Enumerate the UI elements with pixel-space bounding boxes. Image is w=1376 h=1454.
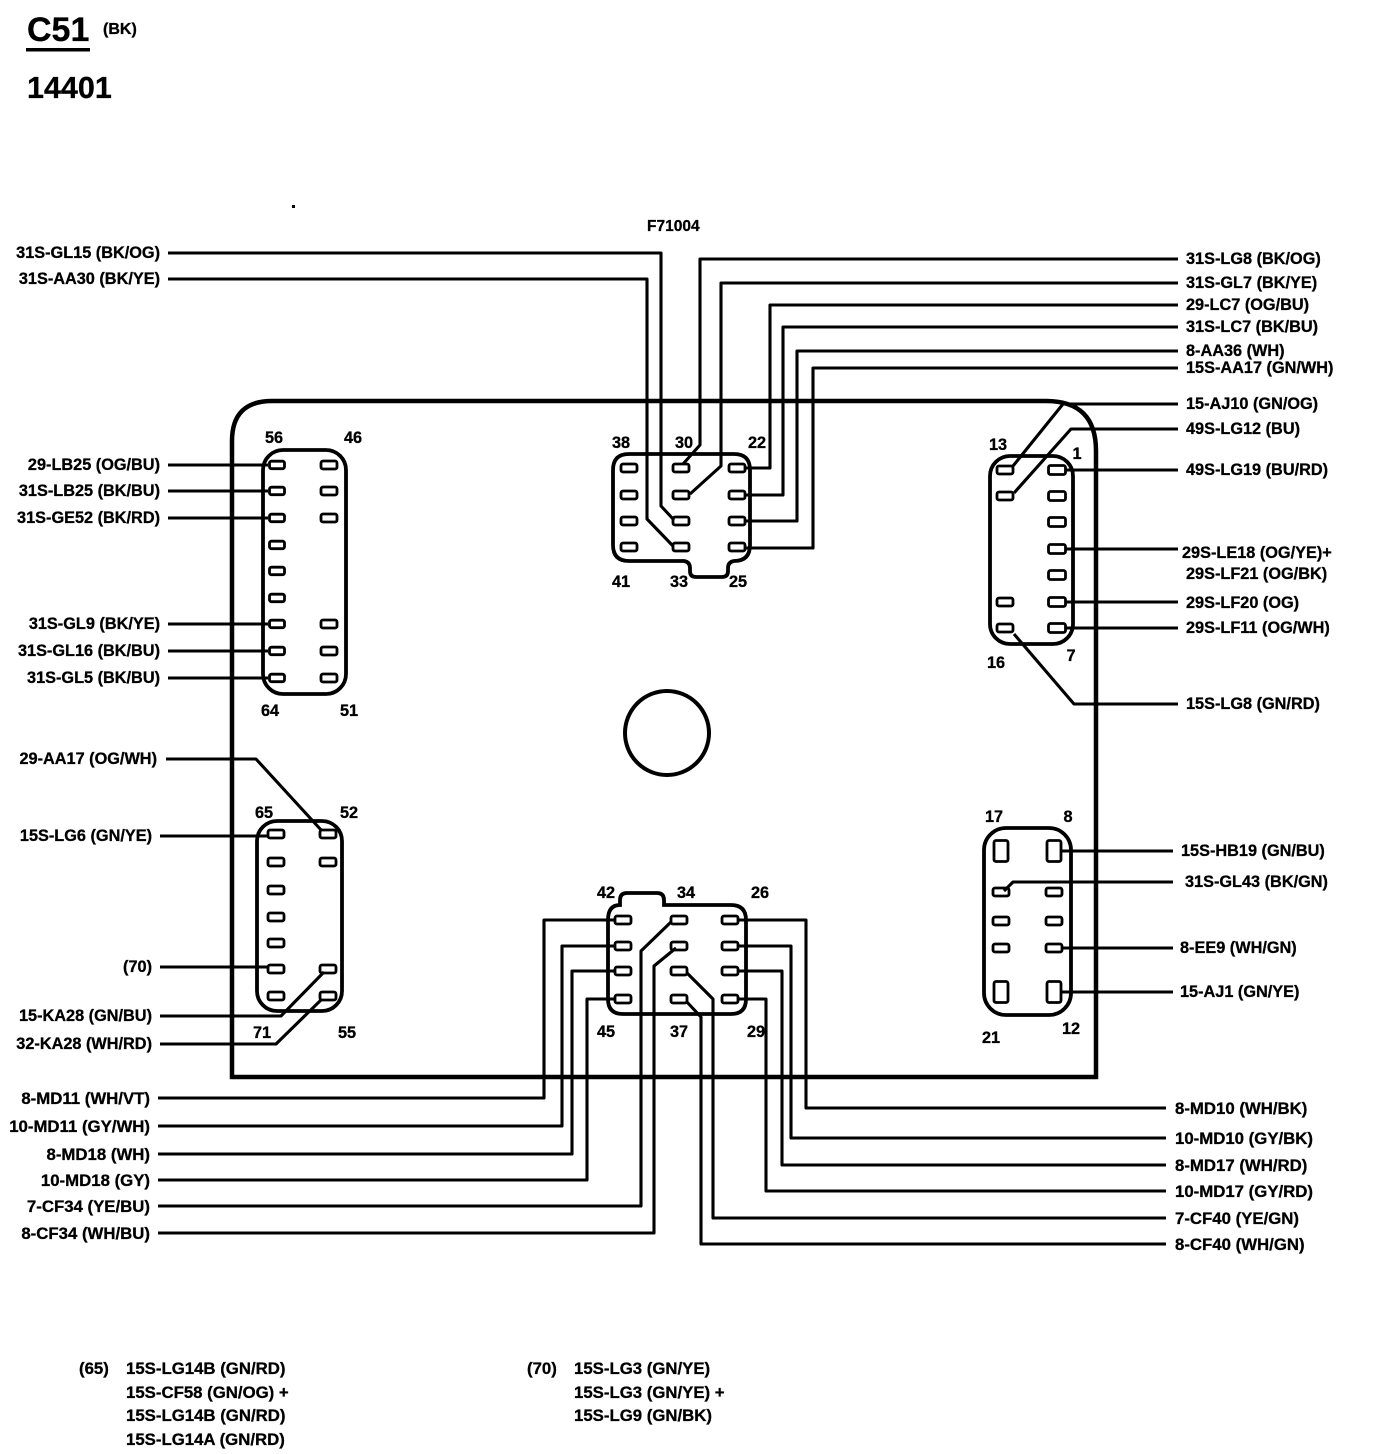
wire 7-CF40 (YE/GN) [687, 973, 1166, 1218]
wire 31S-GL15 (BK/OG) [168, 253, 674, 520]
block D left pin row7 [268, 992, 284, 1000]
block D right pin row6 [320, 965, 336, 973]
wire 10-MD11 (GY/WH) [158, 946, 615, 1126]
wire 32-KA28 (WH/RD) [160, 999, 322, 1044]
svg-text:29-LC7 (OG/BU): 29-LC7 (OG/BU) [1186, 296, 1309, 314]
block E col1 pin row3 [615, 967, 631, 975]
wire 49S-LG12 (BU) [1014, 429, 1178, 493]
block C outline (pins 1-13/7-16) [990, 456, 1073, 644]
block F pin 8 (tall) [1047, 841, 1061, 862]
svg-text:15S-HB19 (GN/BU): 15S-HB19 (GN/BU) [1181, 842, 1325, 860]
svg-text:15S-LG3 (GN/YE): 15S-LG3 (GN/YE) [574, 1359, 710, 1378]
block C left pin row7 [997, 624, 1013, 632]
block D right pin row2 [320, 858, 336, 866]
block B col3 pin row2 [729, 491, 745, 499]
block C right pin row2 [1049, 492, 1066, 501]
wire 8-EE9 (WH/GN) [1061, 946, 1173, 949]
svg-text:15S-LG6 (GN/YE): 15S-LG6 (GN/YE) [20, 827, 152, 845]
svg-text:10-MD18 (GY): 10-MD18 (GY) [41, 1171, 150, 1190]
block A right pin row7 [321, 620, 337, 628]
block F right pin row3 [1046, 917, 1062, 925]
svg-text:12: 12 [1062, 1020, 1080, 1038]
block B col2 pin row3 [673, 517, 689, 525]
wire 31S-AA30 (BK/YE) [168, 279, 673, 546]
svg-text:10-MD10 (GY/BK): 10-MD10 (GY/BK) [1175, 1129, 1313, 1148]
block B col2 pin row1 [673, 464, 689, 472]
svg-text:10-MD17 (GY/RD): 10-MD17 (GY/RD) [1175, 1182, 1313, 1201]
wire 10-MD10 (GY/BK) [738, 946, 1166, 1138]
svg-text:31S-GL7 (BK/YE): 31S-GL7 (BK/YE) [1186, 274, 1317, 292]
wire 31S-LC7 (BK/BU) [746, 327, 1178, 495]
svg-text:38: 38 [612, 434, 630, 452]
wire 10-MD17 (GY/RD) [738, 999, 1166, 1191]
block A left pin row1 [270, 461, 285, 469]
svg-text:52: 52 [340, 804, 358, 822]
block A left pin row5 [270, 567, 285, 575]
block C right pin row7 [1049, 624, 1066, 633]
block E col3 pin row3 [722, 967, 738, 975]
svg-text:15-KA28 (GN/BU): 15-KA28 (GN/BU) [19, 1007, 152, 1025]
block F pin 12 (tall) [1047, 982, 1061, 1003]
svg-text:30: 30 [675, 434, 693, 452]
svg-text:31S-GL15 (BK/OG): 31S-GL15 (BK/OG) [16, 244, 160, 262]
svg-text:33: 33 [670, 573, 688, 591]
svg-text:15S-LG3 (GN/YE) +: 15S-LG3 (GN/YE) + [574, 1383, 725, 1402]
block F pin 21 (tall) [994, 982, 1008, 1003]
svg-text:37: 37 [670, 1023, 688, 1041]
wire 8-MD18 (WH) [158, 971, 615, 1154]
wire (70) [160, 965, 267, 968]
svg-text:8-AA36 (WH): 8-AA36 (WH) [1186, 342, 1285, 360]
block D left pin row6 [268, 965, 284, 973]
block B col2 pin row2 [673, 491, 689, 499]
svg-text:15S-AA17 (GN/WH): 15S-AA17 (GN/WH) [1186, 359, 1333, 377]
block B col3 pin row3 [729, 517, 745, 525]
svg-text:8-EE9 (WH/GN): 8-EE9 (WH/GN) [1180, 939, 1297, 957]
svg-text:7: 7 [1066, 647, 1075, 665]
svg-text:29-LB25 (OG/BU): 29-LB25 (OG/BU) [28, 456, 160, 474]
wire 15S-LG6 (GN/YE) [160, 834, 267, 837]
block E col3 pin row2 [722, 942, 738, 950]
wire 31S-GL9 (BK/YE) [168, 622, 268, 625]
svg-text:22: 22 [748, 434, 766, 452]
block C right pin row3 [1049, 518, 1066, 527]
block A left pin row7 [270, 620, 285, 628]
svg-text:56: 56 [265, 429, 283, 447]
svg-text:C51: C51 [27, 11, 89, 49]
block B col1 pin row1 [621, 464, 637, 472]
wire 15S-HB19 (GN/BU) [1061, 849, 1173, 852]
svg-text:29S-LF11 (OG/WH): 29S-LF11 (OG/WH) [1186, 619, 1330, 637]
svg-text:(70): (70) [527, 1359, 557, 1378]
svg-text:21: 21 [982, 1029, 1000, 1047]
svg-text:46: 46 [344, 429, 362, 447]
wire 8-CF40 (WH/GN) [686, 1001, 1166, 1244]
wire 29S-LF11 (OG/WH) [1066, 626, 1178, 629]
block C right pin row5 [1049, 571, 1066, 580]
svg-text:64: 64 [261, 702, 279, 720]
wire 31S-LB25 (BK/BU) [168, 489, 268, 492]
wire 31S-GL16 (BK/BU) [168, 649, 268, 652]
svg-text:49S-LG19 (BU/RD): 49S-LG19 (BU/RD) [1186, 461, 1328, 479]
block A left pin row6 [270, 594, 285, 602]
block E col2 pin row3 [671, 967, 687, 975]
title C51 underline [26, 48, 90, 52]
wire 15S-AA17 (GN/WH) [746, 368, 1178, 548]
block F left pin row4 [993, 944, 1009, 952]
block B col1 pin row2 [621, 491, 637, 499]
block F right pin row4 [1046, 944, 1062, 952]
block D left pin row1 [268, 830, 284, 838]
block C left pin row6 [997, 598, 1013, 606]
block E col3 pin row4 [722, 995, 738, 1003]
svg-text:31S-LC7 (BK/BU): 31S-LC7 (BK/BU) [1186, 318, 1318, 336]
svg-text:15S-LG14B (GN/RD): 15S-LG14B (GN/RD) [126, 1406, 285, 1425]
block A left pin row8 [270, 647, 285, 655]
svg-text:31S-GL43 (BK/GN): 31S-GL43 (BK/GN) [1185, 873, 1328, 891]
wire 31S-GL7 (BK/YE) [690, 283, 1178, 494]
svg-text:14401: 14401 [27, 71, 112, 105]
svg-text:7-CF34 (YE/BU): 7-CF34 (YE/BU) [27, 1197, 150, 1216]
wire 15-AJ1 (GN/YE) [1061, 990, 1173, 993]
svg-text:15-AJ10 (GN/OG): 15-AJ10 (GN/OG) [1186, 395, 1318, 413]
svg-text:8-CF34 (WH/BU): 8-CF34 (WH/BU) [21, 1224, 150, 1243]
block D left pin row2 [268, 858, 284, 866]
connector body outline [232, 401, 1096, 1077]
block B col3 pin row4 [729, 543, 745, 551]
block E col1 pin row4 [615, 995, 631, 1003]
wire 8-MD11 (WH/VT) [158, 920, 615, 1098]
block E col1 pin row2 [615, 942, 631, 950]
block C right pin row1 [1049, 466, 1066, 475]
svg-text:29-AA17 (OG/WH): 29-AA17 (OG/WH) [19, 750, 157, 768]
svg-text:8-CF40 (WH/GN): 8-CF40 (WH/GN) [1175, 1235, 1305, 1254]
svg-text:26: 26 [751, 884, 769, 902]
svg-text:15-AJ1 (GN/YE): 15-AJ1 (GN/YE) [1180, 983, 1299, 1001]
wire 8-MD17 (WH/RD) [738, 971, 1166, 1165]
svg-text:65: 65 [255, 804, 273, 822]
block A left pin row3 [270, 514, 285, 522]
wire 8-MD10 (WH/BK) [738, 920, 1166, 1108]
svg-text:15S-LG14B (GN/RD): 15S-LG14B (GN/RD) [126, 1359, 285, 1378]
svg-text:13: 13 [989, 436, 1007, 454]
wire 15-AJ10 (GN/OG) [1013, 404, 1178, 466]
block A left pin row2 [270, 487, 285, 495]
svg-text:45: 45 [597, 1023, 615, 1041]
block D right pin row7 [320, 992, 336, 1000]
wire 8-CF34 (WH/BU) [158, 948, 676, 1233]
stray dot [292, 205, 295, 208]
wire 31S-GL43 (BK/GN) [1004, 882, 1173, 891]
svg-text:(65): (65) [79, 1359, 109, 1378]
block A outline (pins 46-56/51-64) [263, 450, 346, 694]
svg-text:55: 55 [338, 1024, 356, 1042]
block F pin 17 (tall) [994, 841, 1008, 862]
svg-text:17: 17 [985, 808, 1003, 826]
svg-text:8-MD11 (WH/VT): 8-MD11 (WH/VT) [21, 1089, 150, 1108]
svg-text:31S-GL5 (BK/BU): 31S-GL5 (BK/BU) [27, 669, 160, 687]
wire 29S-LF20 (OG) [1066, 600, 1178, 603]
svg-text:49S-LG12 (BU): 49S-LG12 (BU) [1186, 420, 1300, 438]
svg-text:15S-LG14A (GN/RD): 15S-LG14A (GN/RD) [126, 1430, 285, 1449]
svg-text:15S-LG9 (GN/BK): 15S-LG9 (GN/BK) [574, 1406, 712, 1425]
svg-text:41: 41 [612, 573, 630, 591]
wire 15-KA28 (GN/BU) [160, 972, 324, 1016]
svg-text:31S-LG8 (BK/OG): 31S-LG8 (BK/OG) [1186, 250, 1321, 268]
block A right pin row3 [321, 514, 337, 522]
block D left pin row5 [268, 939, 284, 947]
block B col2 pin row4 [673, 543, 689, 551]
block E col2 pin row2 [671, 942, 687, 950]
wire 29-LB25 (OG/BU) [168, 463, 268, 466]
wire 31S-LG8 (BK/OG) [683, 259, 1178, 464]
block F left pin row3 [993, 917, 1009, 925]
block B col3 pin row1 [729, 464, 745, 472]
svg-text:15S-LG8 (GN/RD): 15S-LG8 (GN/RD) [1186, 695, 1320, 713]
svg-text:15S-CF58 (GN/OG) +: 15S-CF58 (GN/OG) + [126, 1383, 289, 1402]
wire 29-AA17 (OG/WH) [166, 759, 322, 831]
wire 29-LC7 (OG/BU) [746, 305, 1178, 468]
svg-text:10-MD11 (GY/WH): 10-MD11 (GY/WH) [9, 1117, 150, 1136]
block F right pin row2 [1046, 888, 1062, 896]
wire 15S-LG8 (GN/RD) [1014, 634, 1178, 704]
block F outline (pins 8-17/12-21) [984, 828, 1071, 1015]
wire 31S-GE52 (BK/RD) [168, 516, 268, 519]
block E col1 pin row1 [615, 916, 631, 924]
svg-text:8-MD17 (WH/RD): 8-MD17 (WH/RD) [1175, 1156, 1307, 1175]
block F left pin row2 [993, 888, 1009, 896]
block A right pin row1 [321, 461, 337, 469]
block D left pin row4 [268, 913, 284, 921]
svg-text:32-KA28 (WH/RD): 32-KA28 (WH/RD) [16, 1035, 152, 1053]
svg-text:51: 51 [340, 702, 358, 720]
block C left pin row1 [997, 466, 1013, 474]
svg-text:8: 8 [1063, 808, 1072, 826]
svg-text:71: 71 [253, 1024, 271, 1042]
svg-text:31S-GL16 (BK/BU): 31S-GL16 (BK/BU) [18, 642, 160, 660]
svg-text:8-MD10 (WH/BK): 8-MD10 (WH/BK) [1175, 1099, 1307, 1118]
svg-text:16: 16 [987, 654, 1005, 672]
block B col1 pin row3 [621, 517, 637, 525]
svg-text:29S-LF20 (OG): 29S-LF20 (OG) [1186, 594, 1299, 612]
wire 31S-GL5 (BK/BU) [168, 676, 268, 679]
block A right pin row8 [321, 647, 337, 655]
svg-text:31S-LB25 (BK/BU): 31S-LB25 (BK/BU) [19, 482, 160, 500]
svg-text:1: 1 [1072, 445, 1081, 463]
svg-text:34: 34 [677, 884, 695, 902]
svg-text:31S-AA30 (BK/YE): 31S-AA30 (BK/YE) [19, 270, 160, 288]
block E col2 pin row1 [671, 916, 687, 924]
svg-text:(70): (70) [123, 958, 152, 976]
block E outline (pins 26-42/29-45) with top tab [608, 893, 746, 1014]
svg-text:42: 42 [597, 884, 615, 902]
wire 7-CF34 (YE/BU) [158, 922, 671, 1206]
block E col3 pin row1 [722, 916, 738, 924]
svg-text:7-CF40 (YE/GN): 7-CF40 (YE/GN) [1175, 1209, 1299, 1228]
svg-text:(BK): (BK) [103, 21, 137, 38]
wire 10-MD18 (GY) [158, 999, 615, 1180]
block A left pin row9 [270, 674, 285, 682]
wire 29S-LE18/29S-LF21 [1066, 547, 1178, 550]
block C right pin row4 [1049, 545, 1066, 554]
block B col1 pin row4 [621, 543, 637, 551]
block A right pin row9 [321, 674, 337, 682]
svg-text:31S-GE52 (BK/RD): 31S-GE52 (BK/RD) [17, 509, 160, 527]
center circle [625, 691, 709, 775]
block D left pin row3 [268, 886, 284, 894]
wire 8-AA36 (WH) [746, 351, 1178, 521]
block D right pin row1 [320, 830, 336, 838]
block A right pin row2 [321, 487, 337, 495]
block E col2 pin row4 [671, 995, 687, 1003]
svg-text:29S-LF21 (OG/BK): 29S-LF21 (OG/BK) [1186, 565, 1327, 583]
svg-text:8-MD18 (WH): 8-MD18 (WH) [47, 1145, 150, 1164]
block A left pin row4 [270, 541, 285, 549]
svg-text:F71004: F71004 [647, 218, 700, 235]
svg-text:29: 29 [747, 1023, 765, 1041]
block C left pin row2 [997, 492, 1013, 500]
block B outline (pins 22-38/25-41) with bottom tab [613, 454, 750, 577]
svg-text:25: 25 [729, 573, 747, 591]
svg-text:29S-LE18 (OG/YE)+: 29S-LE18 (OG/YE)+ [1182, 544, 1332, 562]
wire 49S-LG19 (BU/RD) [1066, 468, 1178, 471]
svg-text:31S-GL9 (BK/YE): 31S-GL9 (BK/YE) [29, 615, 160, 633]
block C right pin row6 [1049, 598, 1066, 607]
block D outline (pins 52-65/55-71) [257, 821, 342, 1011]
